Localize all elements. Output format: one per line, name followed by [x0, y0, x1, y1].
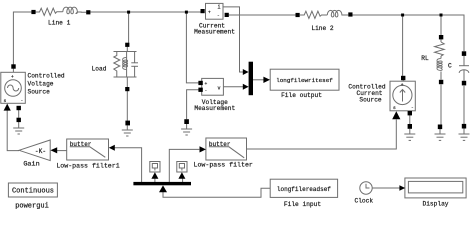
svg-text:File output: File output — [281, 92, 322, 99]
port ground VM — [184, 119, 189, 124]
resistor Line2 R — [300, 11, 328, 18]
wire down to RL top port — [440, 15, 442, 35]
wire demux out2 stub — [154, 179, 156, 183]
Load parallel RLC branch — [114, 47, 139, 87]
svg-text:Continuous: Continuous — [12, 188, 54, 196]
svg-text:RL: RL — [421, 55, 429, 62]
arrow into Low-pass filter left side — [200, 146, 206, 152]
wire CVS top port stub — [12, 69, 14, 73]
arrow Mux input2 — [243, 84, 249, 90]
svg-text:Controlled: Controlled — [28, 73, 65, 80]
svg-text:-K-: -K- — [35, 148, 46, 155]
ground under Load — [122, 126, 133, 137]
wire down to CCS top port — [402, 15, 404, 76]
port Load top — [125, 43, 129, 47]
port Load bottom — [125, 87, 129, 91]
svg-text:File input: File input — [284, 201, 321, 208]
svg-text:Gain: Gain — [23, 161, 39, 169]
junction dot to CCS — [401, 14, 404, 17]
port VM plus — [198, 81, 202, 85]
longfilereadsef block — [270, 179, 337, 197]
svg-text:Low-pass filter1: Low-pass filter1 — [56, 162, 119, 169]
svg-text:Line 2: Line 2 — [311, 25, 334, 32]
arrow CCS input — [392, 111, 400, 119]
svg-text:-: - — [411, 106, 414, 111]
wire filter1 output to Gain input arrow — [57, 150, 67, 152]
longfilewritesef block — [270, 69, 339, 90]
wire CCS top port stub — [402, 80, 404, 81]
junction dot to RL — [440, 14, 443, 17]
Demux bar — [133, 182, 191, 185]
Low-pass filter block — [206, 138, 247, 160]
junction dot to Load — [127, 11, 130, 14]
port C bottom — [462, 81, 466, 86]
svg-text:butter: butter — [209, 141, 231, 148]
svg-text:Measurement: Measurement — [194, 28, 235, 35]
port VM minus — [198, 88, 202, 92]
load resistor — [114, 52, 120, 78]
wire CCS bottom-right port to ground — [409, 115, 411, 124]
small block 1 above demux — [150, 162, 160, 173]
port CCS bottom-right — [408, 111, 412, 115]
port Line1 right — [86, 10, 90, 14]
ground under RL — [435, 129, 446, 140]
wire CVS bottom-right port to ground — [18, 110, 20, 118]
svg-text:+: + — [401, 83, 404, 88]
wire CM to Line2 — [229, 14, 296, 16]
tiny port marks — [4, 5, 414, 111]
wire demux out4 stub — [182, 179, 184, 183]
wire Mux output to File output — [253, 79, 264, 81]
wire RL bottom to ground — [440, 84, 442, 124]
wire Load bottom port to ground — [126, 91, 128, 121]
svg-text:Display: Display — [423, 200, 449, 207]
load capacitor — [134, 52, 136, 63]
ground under C — [459, 129, 470, 141]
wire demux out3 to Low-pass filter input arrow — [169, 149, 199, 182]
wire demux out1 to filter1 input arrow — [115, 148, 142, 182]
svg-text:Clock: Clock — [355, 198, 374, 205]
svg-text:butter: butter — [70, 141, 92, 148]
port CCS top — [401, 76, 405, 80]
svg-text:longfilereadsef: longfilereadsef — [277, 186, 331, 193]
Gain triangle — [19, 140, 50, 161]
svg-text:i: i — [218, 5, 221, 11]
port CM left — [201, 9, 205, 13]
load inductor — [126, 52, 128, 78]
Controlled Current Source block — [390, 81, 415, 111]
svg-text:C: C — [448, 63, 452, 70]
svg-text:v: v — [218, 85, 221, 91]
arrow Mux input1 — [243, 69, 249, 75]
wire CM signal to Mux input 1 — [223, 7, 243, 72]
svg-text:+: + — [205, 82, 208, 87]
black filled items — [4, 9, 467, 192]
port ground Load — [125, 121, 130, 126]
svg-text:Measurement: Measurement — [194, 105, 235, 112]
port CVS top — [11, 64, 15, 68]
svg-text:Voltage: Voltage — [28, 81, 54, 88]
Clock — [360, 182, 372, 194]
wire Line2 to right corner — [353, 15, 465, 51]
Low-pass filter1 block — [67, 139, 109, 160]
svg-text:Load: Load — [92, 66, 107, 73]
arrow into Gain — [50, 147, 57, 153]
Mux bar — [249, 62, 253, 95]
svg-text:+: + — [208, 11, 211, 16]
Current Measurement block — [206, 3, 224, 19]
port ground C — [462, 124, 466, 129]
RL series branch — [435, 39, 445, 79]
small block 2 above demux — [177, 162, 187, 173]
port ground CVS — [17, 118, 21, 122]
wire C bottom to ground — [463, 86, 465, 124]
svg-text:+: + — [11, 75, 14, 80]
port CM right — [225, 13, 229, 17]
arrow into filter1 right side — [109, 145, 115, 151]
svg-text:Source: Source — [359, 96, 382, 103]
wire from Line1 to Current Measurement — [90, 11, 200, 13]
wire top-left vertical from CVS top port — [13, 12, 31, 65]
port RL bottom — [439, 80, 443, 84]
port Line1 left — [31, 10, 35, 14]
wire VM minus to ground — [187, 90, 199, 120]
arrow CVS input — [4, 104, 11, 111]
port Line2 right — [348, 12, 352, 16]
port ground RL — [438, 125, 442, 130]
wire CVS input down and to Gain output — [7, 110, 19, 151]
inductor Line1 L — [63, 7, 87, 14]
svg-text:Source: Source — [28, 89, 51, 96]
port Line2 left — [296, 13, 300, 17]
arrow into File output — [263, 77, 270, 83]
svg-text:s: s — [4, 99, 7, 104]
port C top — [462, 51, 466, 56]
capacitor C branch — [459, 56, 469, 81]
svg-text:powergui: powergui — [15, 203, 49, 210]
Display block — [405, 178, 466, 198]
arrow small block2 input — [178, 172, 185, 179]
arrow small block1 input — [151, 172, 158, 179]
wire down to Load — [128, 12, 130, 43]
wire VM v output to Mux input 2 — [223, 86, 243, 88]
wire down to Voltage Measurement plus — [186, 12, 198, 83]
Voltage Measurement block — [202, 78, 224, 95]
ground under CCS — [404, 129, 415, 141]
ground under VM — [181, 124, 192, 135]
wire Clock to Display — [372, 187, 400, 189]
svg-text:s: s — [393, 106, 396, 111]
wire Low-pass filter output to CCS input — [247, 120, 397, 150]
svg-text:-: - — [205, 89, 208, 94]
junction dot to VM — [185, 11, 188, 14]
port ground CCS — [408, 124, 412, 129]
arrow Demux input — [159, 185, 167, 192]
ground under CVS — [13, 122, 24, 134]
svg-text:-: - — [21, 99, 24, 104]
port RL top — [439, 35, 443, 39]
svg-text:longfilewritesef: longfilewritesef — [276, 77, 333, 84]
svg-text:Low-pass filter: Low-pass filter — [194, 162, 253, 169]
svg-text:-: - — [217, 14, 220, 19]
Controlled Voltage Source block — [1, 72, 26, 103]
arrow into Display — [399, 185, 405, 191]
port CVS bottom-right — [17, 106, 21, 110]
resistor Line1 R — [35, 8, 63, 15]
inductor Line2 L — [327, 10, 348, 17]
wire File input to Demux input — [163, 188, 270, 197]
Continuous block — [8, 183, 57, 197]
svg-text:Line 1: Line 1 — [48, 20, 71, 27]
